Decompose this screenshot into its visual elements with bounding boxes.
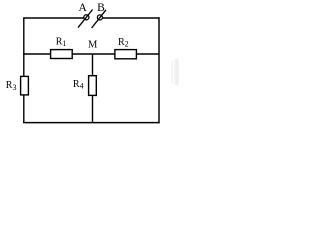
wire: middle row left segment (23, 53, 51, 55)
svg-text:A: A (78, 2, 87, 14)
svg-text:R2: R2 (118, 37, 129, 49)
wire: R4 branch lower (R4 to bottom wire) (92, 95, 94, 123)
wire: middle row right segment (136, 53, 159, 55)
resistor R4 (89, 76, 97, 96)
svg-text:R3: R3 (6, 80, 17, 92)
wire: left vertical lower (R3 to bottom corner) (23, 95, 25, 123)
switch B (92, 10, 106, 28)
svg-text:R1: R1 (56, 36, 67, 48)
switch A (78, 10, 93, 28)
wire: middle row center segment (72, 53, 115, 55)
wire: right vertical (158, 17, 160, 123)
wire: top-right horizontal segment (103, 17, 160, 19)
wire: left vertical upper (top corner to R3) (23, 17, 25, 77)
resistor R2 (115, 50, 136, 59)
resistor R3 (21, 76, 29, 95)
wire: R4 branch upper (node M down to R4) (92, 54, 94, 77)
svg-text:B: B (97, 2, 105, 14)
wire: top-left horizontal segment (24, 17, 85, 19)
wire: bottom horizontal (23, 122, 160, 124)
svg-text:R4: R4 (73, 79, 84, 91)
resistor R1 (51, 50, 73, 59)
svg-text:M: M (88, 39, 98, 50)
